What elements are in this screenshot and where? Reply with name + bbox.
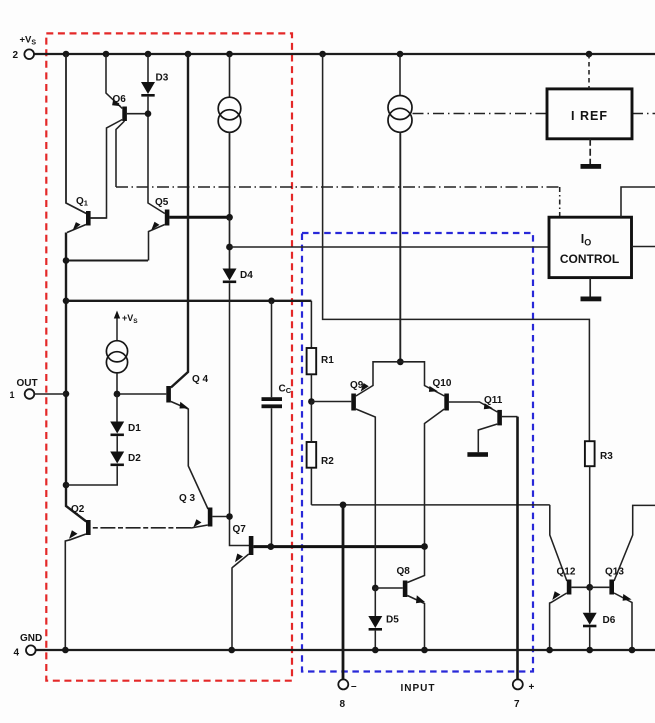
current source CS1 wire from rail <box>229 54 231 97</box>
svg-text:D5: D5 <box>386 615 399 626</box>
transistor Q3 (NPN) <box>208 508 213 527</box>
wire: D3 cathode down to Q5 base <box>148 97 165 214</box>
svg-text:1: 1 <box>10 390 15 400</box>
Q8 collector wire up to Q7 collector node <box>407 547 424 583</box>
wire: D4 cathode down to Q7 base <box>230 283 250 545</box>
junction dots on GND rail <box>62 647 635 654</box>
wire: Q9 emitter with arrow (PNP) <box>356 362 400 396</box>
wire: dash-dot I REF to right edge <box>632 113 655 115</box>
wire: +Vs top rail <box>34 53 655 55</box>
current source CS2 wire from rail <box>399 54 401 96</box>
current source CS2 (two overlapped circles) <box>388 96 412 120</box>
Q12 emitter wire with arrow to GND rail <box>550 593 567 650</box>
current source CS1 (two overlapped circles) <box>218 97 241 120</box>
Q12 base wire <box>571 586 589 588</box>
wire: R2 leads <box>310 402 312 505</box>
wire: to Io CONTROL box (y=247) <box>230 246 550 248</box>
wire: Q1 collector to +Vs rail (x=66) <box>66 54 86 214</box>
wire: pin 7 (non-inverting input) vertical <box>516 417 519 680</box>
svg-text:D3: D3 <box>156 73 169 84</box>
svg-text:4: 4 <box>14 648 20 659</box>
svg-text:2: 2 <box>13 50 19 61</box>
wire: Q9 base <box>311 401 351 403</box>
wire: dash-dot CS2 to I REF <box>413 113 548 115</box>
transistor Q7 (NPN) <box>249 536 254 555</box>
node: capacitor top junction on output line <box>268 298 275 305</box>
Q7 collector wire (thick) to Q8 collector node <box>253 545 424 548</box>
node: diff pair emitter junction <box>397 358 404 365</box>
wire: +Vs to R3 (x=322.6 then y=319.4) <box>323 54 590 441</box>
svg-text:OUT: OUT <box>17 378 38 389</box>
ground symbol (Q11) <box>467 452 488 457</box>
capacitor C <box>262 397 283 401</box>
svg-text:Q 4: Q 4 <box>192 374 209 385</box>
Q13 base wire <box>590 586 610 588</box>
current source CS3 (two overlapped circles) <box>106 341 127 362</box>
diode D3 <box>141 82 155 94</box>
wire: Q12 collector from y=504.9 line <box>550 505 567 581</box>
transistor Q6 (PNP) <box>122 107 127 122</box>
wire: pin 8 (inverting input) vertical <box>342 505 345 679</box>
wire: R3 bottom to Q12/Q13 base node <box>589 466 591 587</box>
wire: R1 top from output line <box>310 301 312 348</box>
Q13 collector wire up and to right edge <box>614 505 655 581</box>
diode D5 <box>368 616 382 628</box>
svg-text:D2: D2 <box>128 453 141 464</box>
transistor Q4 (NPN) <box>166 386 171 403</box>
current source CS3 +Vs arrow <box>116 316 118 341</box>
diode D2 <box>110 452 124 464</box>
svg-text:8: 8 <box>340 699 346 710</box>
svg-text:CC: CC <box>279 384 292 396</box>
terminal pin 4 (GND) <box>26 645 36 655</box>
terminal pin 1 (OUT) <box>25 389 35 399</box>
wire: OUT pin to x=66 bus <box>34 393 66 395</box>
node: Q12/Q13 base junction (R3 bottom) <box>586 584 593 591</box>
Q8 emitter wire with arrow to GND rail <box>407 596 424 651</box>
svg-text:Q8: Q8 <box>397 566 411 577</box>
node: Q6 base / D3 junction <box>145 110 152 117</box>
Q11 base wire to pin 7 <box>502 416 518 418</box>
transistor Q11 (PNP) <box>497 410 502 426</box>
Q6 collector wire down to Q1 base node <box>91 120 123 219</box>
wire: CS2 output down to diff pair emitters <box>399 132 401 361</box>
Q10 base wire to Q11 emitter with arrow <box>449 402 498 412</box>
svg-text:R1: R1 <box>321 355 334 366</box>
svg-text:Q2: Q2 <box>71 504 85 515</box>
wire: I REF to ground <box>589 139 591 164</box>
diode D5 anode wire <box>374 588 376 616</box>
transistor Q9 (PNP) <box>351 394 356 411</box>
Q6 emitter wire from +Vs rail with arrow <box>106 54 122 109</box>
diode D1 <box>110 422 124 434</box>
Q4 emitter wire with arrow (NPN, pointing away) <box>171 402 208 510</box>
wire: GND rail <box>36 649 655 651</box>
svg-text:D1: D1 <box>128 423 141 434</box>
diode D4 <box>223 269 237 281</box>
junction dots on x=66 bus <box>63 257 70 488</box>
wire: Io CONTROL right exit <box>632 246 655 248</box>
terminal pin 7 (+ input) <box>513 679 523 689</box>
node: R1/R2/Q9 base junction <box>308 398 315 405</box>
wire: D1 to D2 <box>116 436 118 451</box>
wire: D2 cathode to output bus <box>66 466 117 485</box>
wire: x=229.5 down to Io CONTROL tap <box>229 217 231 268</box>
Q6 base wire to D3 node <box>127 113 148 115</box>
wire: main vertical x=188 (+Vs to Q4 collector) <box>171 54 188 388</box>
svg-text:Q 3: Q 3 <box>179 493 196 504</box>
transistor Q13 (NPN) <box>609 580 614 595</box>
wire: output node line y=300.8 <box>66 300 311 302</box>
svg-text:GND: GND <box>20 633 42 644</box>
transistor Q1 (PNP) <box>86 211 91 226</box>
svg-text:I REF: I REF <box>571 109 608 123</box>
node: Q7/Q8/Q10 collector junction <box>421 543 428 550</box>
svg-text:INPUT: INPUT <box>401 683 436 694</box>
ground symbol (I REF) <box>581 164 602 169</box>
wire: capacitor bottom to Q7 collector line <box>271 408 273 546</box>
diode D1 anode wire <box>116 394 118 422</box>
wire: capacitor top <box>271 301 273 397</box>
resistor R1 <box>307 348 317 374</box>
wire: R1 bottom to Q9 base node <box>310 374 312 401</box>
wire: Io CONTROL top-right entry from right edge <box>621 187 655 217</box>
node: cap / Q7 collector junction <box>267 543 274 550</box>
transistor Q5 (PNP) <box>165 210 170 226</box>
resistor R3 <box>585 441 595 466</box>
transistor Q2 (NPN) <box>86 520 91 535</box>
Q4 base wire from current source node <box>117 393 166 395</box>
junction dots on +Vs rail <box>63 51 593 58</box>
node: Q8 base junction <box>372 585 379 592</box>
Q3 emitter wire to Q2 base with arrow <box>191 525 208 528</box>
node: Q4 base / D1 junction <box>114 391 121 398</box>
svg-text:CONTROL: CONTROL <box>560 252 619 266</box>
Q3 base wire to D4 chain <box>212 516 229 518</box>
wire: Io CONTROL to ground <box>589 278 591 297</box>
svg-text:Q10: Q10 <box>433 378 452 389</box>
block I REF <box>547 89 632 139</box>
svg-text:Q6: Q6 <box>113 94 127 105</box>
svg-text:R3: R3 <box>600 451 613 462</box>
wire: Q10 emitter with arrow (PNP) <box>400 362 444 396</box>
ground symbol (Io CONTROL) <box>581 297 602 302</box>
wire: R2 bottom line y=504.9 to Q12 collector <box>311 504 549 506</box>
svg-text:–: – <box>351 681 357 692</box>
Q9 collector wire down to Q8 base node <box>356 409 375 588</box>
wire: CS3 output to Q4 base node <box>116 373 118 394</box>
block Io CONTROL <box>549 217 632 277</box>
wire: dashed rail to I REF top <box>588 54 590 89</box>
Q7 emitter wire with arrow to GND rail <box>232 554 249 650</box>
node: Q5 collector junction <box>226 214 233 221</box>
svg-text:Q9: Q9 <box>350 380 364 391</box>
svg-text:Q5: Q5 <box>155 197 169 208</box>
node: Q3 base junction <box>226 513 233 520</box>
diode D6 <box>583 613 597 625</box>
Q5 emitter wire with arrow <box>149 225 165 261</box>
transistor Q8 (NPN) <box>403 581 408 598</box>
wire: emitter bus x=66 down from Q1 <box>66 233 86 522</box>
wire: Q1/Q5 emitter tie line y=260.5 <box>66 260 148 262</box>
node: Io CONTROL tap junction <box>226 244 233 251</box>
transistor Q12 (NPN) <box>567 580 572 595</box>
Q1 base wire <box>91 217 107 219</box>
svg-text:Q13: Q13 <box>605 567 624 578</box>
blue dashed box (input stage region) <box>302 233 533 672</box>
svg-text:Q12: Q12 <box>557 567 576 578</box>
svg-text:+: + <box>529 682 535 693</box>
wire: D6 cathode to GND rail <box>589 627 591 650</box>
Q6 collector branch wire to Io CONTROL (dash-dot) <box>116 121 125 187</box>
red dashed box (output stage region) <box>46 33 292 680</box>
diode D6 anode wire <box>589 587 591 612</box>
Q8 base wire <box>375 587 403 589</box>
resistor R2 <box>307 442 317 468</box>
Q2 emitter wire with arrow to GND rail <box>65 534 86 650</box>
Q5 collector wire (thick) <box>169 216 229 219</box>
svg-text:Q11: Q11 <box>484 395 503 406</box>
wire: D5 cathode to GND rail <box>374 631 376 650</box>
terminal pin 8 (- input) <box>338 679 348 689</box>
Q13 emitter wire with arrow to GND rail <box>614 593 632 650</box>
Q10 collector wire down <box>425 409 445 547</box>
node: pin 8 junction on y=504.9 <box>340 502 347 509</box>
terminal pin 2 (+Vs) <box>24 49 34 59</box>
Q11 collector wire to ground <box>478 424 497 452</box>
wire: CS1 output down to Q5 collector node <box>229 132 231 217</box>
svg-text:7: 7 <box>514 699 520 710</box>
svg-text:D6: D6 <box>603 615 616 626</box>
svg-text:D4: D4 <box>240 270 253 281</box>
diode D3 anode wire <box>147 54 149 82</box>
svg-text:Q7: Q7 <box>233 524 247 535</box>
transistor Q10 (PNP) <box>444 394 449 411</box>
svg-text:R2: R2 <box>321 456 334 467</box>
Q1 emitter wire with arrow <box>67 225 86 233</box>
svg-text:Q1: Q1 <box>76 196 88 208</box>
